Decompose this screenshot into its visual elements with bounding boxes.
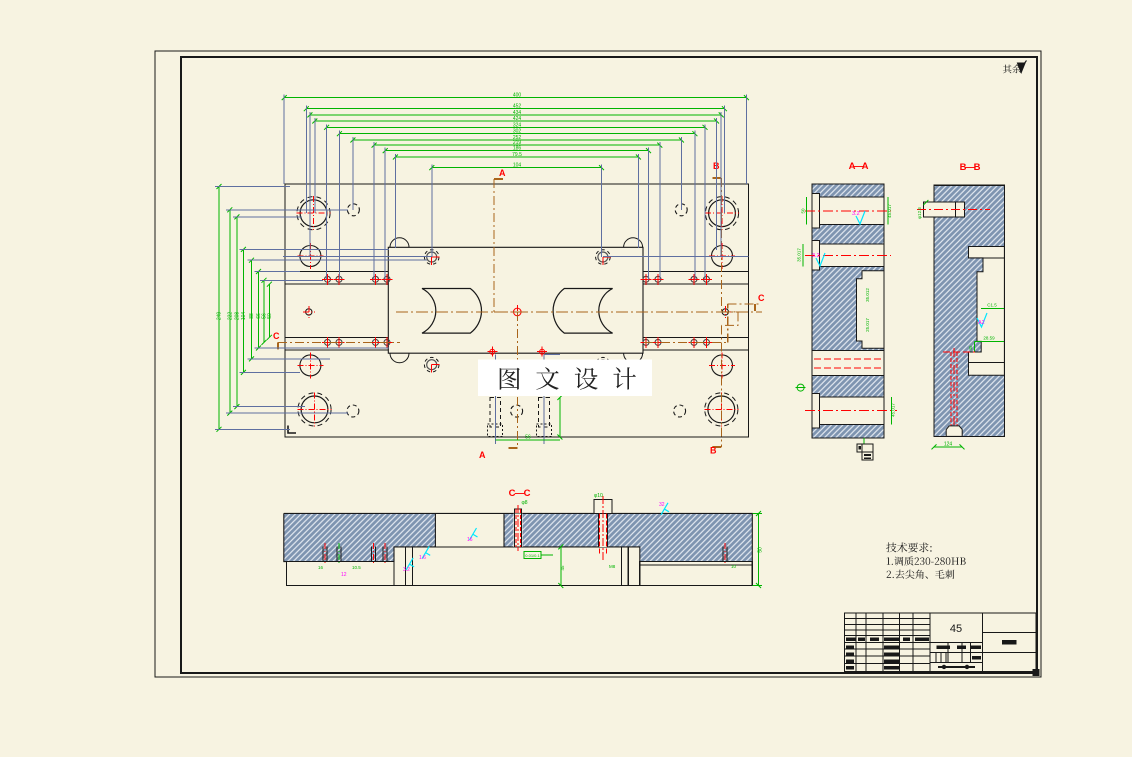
main horizontal centerline <box>396 311 762 313</box>
svg-text:φ12.6: φ12.6 <box>917 207 922 219</box>
B-B surface mark <box>977 313 987 327</box>
small side holes on centerline <box>306 309 312 315</box>
A-A right step channel <box>857 271 885 348</box>
title block right rows <box>983 631 1036 633</box>
svg-text:10: 10 <box>731 564 737 569</box>
svg-text:302: 302 <box>513 129 522 135</box>
svg-text:452: 452 <box>513 104 522 110</box>
svg-text:434: 434 <box>513 110 522 116</box>
svg-text:28.59: 28.59 <box>983 335 995 340</box>
A-A cavity band <box>812 350 884 375</box>
svg-text:50: 50 <box>267 313 273 319</box>
svg-text:A: A <box>862 161 869 172</box>
svg-text:45: 45 <box>560 565 565 571</box>
left dimension stack verticals <box>218 187 220 430</box>
C-C boxed label <box>524 552 541 559</box>
svg-text:249: 249 <box>217 312 223 321</box>
svg-text:3.2: 3.2 <box>852 211 860 217</box>
A-A surface marks <box>856 211 865 224</box>
svg-text:C: C <box>273 331 280 341</box>
A-A bushing slot top <box>820 197 884 224</box>
C-C base line <box>287 585 753 587</box>
svg-text:208: 208 <box>234 312 240 321</box>
svg-text:φ10: φ10 <box>594 493 603 499</box>
svg-text:400: 400 <box>513 93 522 99</box>
svg-text:45: 45 <box>950 623 962 635</box>
die plate corner bolt holes <box>427 252 437 262</box>
section line A-A <box>493 179 495 312</box>
ejector leader lines <box>494 354 496 444</box>
svg-text:88: 88 <box>249 313 255 319</box>
svg-text:50: 50 <box>801 208 806 214</box>
C-C upper plate hatched segments <box>284 513 394 561</box>
leader line to TL bolt <box>283 256 432 258</box>
A-A slot 4 <box>820 397 884 425</box>
svg-text:35.012: 35.012 <box>865 288 870 302</box>
C-C bolt 2 with head <box>598 513 608 547</box>
svg-text:B: B <box>974 162 981 173</box>
C-C upper plate outline <box>284 513 753 561</box>
ejector dimensions green <box>559 398 561 438</box>
svg-text:12: 12 <box>341 572 347 578</box>
title block text blobs <box>846 638 856 642</box>
svg-text:1.6: 1.6 <box>419 555 426 561</box>
center hole <box>514 308 522 316</box>
svg-text:32: 32 <box>659 502 665 508</box>
A-A datum symbol phi <box>797 384 804 391</box>
middle row circular holes <box>300 246 321 267</box>
border corner mark <box>1033 669 1040 676</box>
svg-text:C1.5: C1.5 <box>987 303 997 308</box>
svg-text:124: 124 <box>944 441 953 447</box>
svg-text:3.2: 3.2 <box>403 567 410 573</box>
rail fastener holes rows <box>325 276 331 282</box>
svg-text:56: 56 <box>525 435 531 441</box>
technical requirements text <box>886 542 931 552</box>
C-C middle dimension 45 <box>560 547 562 586</box>
C-C left pins <box>322 547 324 562</box>
svg-text:B: B <box>710 446 717 456</box>
svg-text:45.017: 45.017 <box>891 403 896 417</box>
ejector feet dotted <box>488 424 503 437</box>
C-C lower blocks <box>287 562 395 586</box>
svg-text:45: 45 <box>968 345 973 351</box>
title block sub-grid <box>947 642 949 662</box>
svg-text:φ8: φ8 <box>522 500 528 506</box>
B-B bolt centerline <box>950 352 952 426</box>
guide rail band lines lower <box>285 336 388 338</box>
svg-text:16: 16 <box>467 537 473 543</box>
datum corner mark <box>288 426 296 434</box>
svg-text:104: 104 <box>241 312 247 321</box>
C-C right pin <box>722 547 724 562</box>
top dimension fan <box>284 97 746 99</box>
B-B bottom notch <box>946 426 962 437</box>
svg-text:0.01/0.1: 0.01/0.1 <box>525 553 540 558</box>
ejector slot dashed outlines <box>490 398 501 428</box>
left bean-shaped die cavity <box>422 289 482 334</box>
right bean-shaped die cavity <box>553 289 613 334</box>
section line B-B <box>721 178 723 312</box>
svg-text:186: 186 <box>513 146 522 152</box>
svg-text:16: 16 <box>318 565 324 570</box>
svg-text:222: 222 <box>227 312 233 321</box>
section A-A hatched body <box>812 184 884 438</box>
title block scale mark <box>938 666 975 668</box>
pin holes at die plate bottom edge <box>490 349 495 354</box>
die plate inner rectangle with relief arcs <box>388 247 643 353</box>
svg-text:10.5: 10.5 <box>352 565 361 570</box>
svg-text:50: 50 <box>758 547 764 553</box>
svg-text:A: A <box>499 168 506 178</box>
svg-text:79.5: 79.5 <box>512 152 522 158</box>
svg-text:35.017: 35.017 <box>797 248 802 262</box>
guide rail band lines upper <box>285 271 388 273</box>
A-A datum target frame <box>863 438 865 444</box>
svg-text:45.017: 45.017 <box>887 204 892 218</box>
A-A dimensions <box>806 197 808 224</box>
vertical extension leader lines from fan to features <box>283 95 285 184</box>
C-C right dimension 50 <box>758 513 760 585</box>
B-B right step cavity <box>969 247 1005 376</box>
B-B bottom dimension <box>934 446 962 448</box>
guide pillar holes (4 corners) with dashed rings <box>300 200 327 227</box>
svg-text:A: A <box>479 450 486 460</box>
C-C surface finish marks cyan <box>470 528 478 540</box>
B-B side pin <box>923 202 964 217</box>
B-B cavity dimensions <box>981 308 1004 310</box>
small dashed pin holes near corners <box>347 204 359 216</box>
svg-text:M8: M8 <box>609 564 616 569</box>
svg-text:A2: A2 <box>978 320 985 326</box>
A-A slot 2 <box>820 244 884 267</box>
C-C bolt 1 <box>514 513 523 547</box>
watermark box tu-wen-she-ji <box>478 360 652 396</box>
left leader horizontals <box>215 186 290 188</box>
svg-text:25.017: 25.017 <box>865 318 870 332</box>
title block <box>845 613 1036 672</box>
svg-text:104: 104 <box>513 163 522 169</box>
plan view: lower die holder plate outline <box>285 184 749 437</box>
surface finish note: qi-yu + triangle symbol <box>1003 65 1021 74</box>
svg-text:C: C <box>524 488 531 499</box>
center dashed circle <box>511 405 523 417</box>
svg-text:C: C <box>758 293 765 303</box>
svg-text:324: 324 <box>513 122 522 128</box>
section B-B hatched body <box>934 185 1004 436</box>
svg-text:3.2: 3.2 <box>812 253 820 259</box>
section line C-C <box>278 341 400 343</box>
svg-text:424: 424 <box>513 116 522 122</box>
